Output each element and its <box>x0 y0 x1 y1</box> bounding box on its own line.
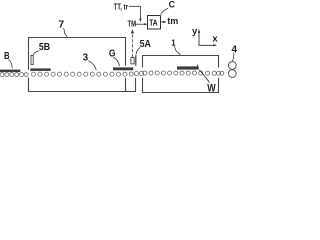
chamber box 7 lower right wall segment <box>125 78 127 92</box>
arrow TA to tm <box>161 21 164 23</box>
leader 1 to box 1 top <box>174 46 181 55</box>
roller row inside box 7 <box>31 72 133 76</box>
leader G to bar <box>113 57 119 66</box>
big roller 4 upper <box>228 62 236 70</box>
arrowhead up to TM <box>131 29 134 33</box>
sensor flag 5B <box>31 55 33 64</box>
leader 5B to flag <box>33 51 40 56</box>
tick on W bar right end <box>196 65 198 67</box>
coordinate axes <box>199 32 214 46</box>
svg-text:x: x <box>212 34 218 45</box>
leader B to bar <box>8 60 12 69</box>
substrate bar B (outside left) <box>0 70 20 73</box>
leader 3 to roller <box>88 61 96 70</box>
leader 5A to middle wall <box>136 47 140 54</box>
chamber box 7 bottom and lower walls <box>29 78 136 92</box>
svg-text:tm: tm <box>167 16 178 26</box>
roller row inside box 1 <box>143 71 221 75</box>
chamber box 1 top and upper walls <box>143 56 219 68</box>
leader W from bar <box>199 70 209 83</box>
substrate bar 5B (inside box 7 left) <box>30 68 50 71</box>
chamber box 1 bottom and lower walls <box>143 78 219 93</box>
leader C to TA corner <box>161 8 169 14</box>
big roller 4 lower <box>228 70 236 78</box>
roller row outside left (B) <box>0 73 28 77</box>
svg-text:W: W <box>207 83 216 95</box>
dash-dot measurement line up to TM <box>131 33 133 57</box>
arrow TM to TA <box>135 23 144 25</box>
small roller outside gate right <box>220 71 224 75</box>
block TA <box>148 16 161 30</box>
substrate bar W (inside box 1) <box>177 66 199 69</box>
svg-text:3: 3 <box>83 52 89 63</box>
sensor target rect for TM <box>131 58 134 64</box>
svg-text:y: y <box>192 26 198 37</box>
leader 4 to big roller <box>233 53 234 61</box>
svg-text:TA: TA <box>149 17 157 27</box>
elbow line from TT,tr down <box>129 6 141 19</box>
svg-text:5B: 5B <box>39 42 50 53</box>
svg-text:4: 4 <box>232 45 238 56</box>
substrate bar G (at gate of box 7) <box>113 67 133 70</box>
chamber box 7 top and upper walls <box>29 38 126 70</box>
svg-text:5A: 5A <box>140 39 151 50</box>
svg-text:TT, tr: TT, tr <box>114 2 129 12</box>
middle gate wall upper segment (5A) <box>135 55 137 66</box>
svg-text:C: C <box>169 0 176 10</box>
arrowhead down from TT,tr <box>139 19 142 22</box>
leader 7 to box top <box>63 28 67 37</box>
svg-text:TM: TM <box>128 18 137 28</box>
rollers in gate gap between boxes <box>134 71 143 75</box>
